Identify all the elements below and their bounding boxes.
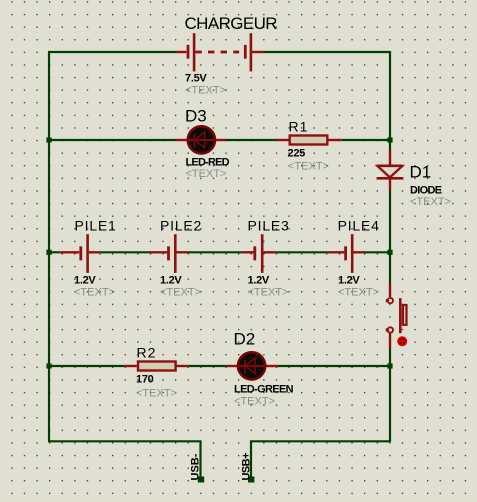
battery PILE1	[60, 234, 101, 273]
long plate	[261, 234, 264, 273]
wire D2 to right rail	[278, 365, 390, 367]
long plate	[351, 234, 354, 273]
battery PILE2	[149, 234, 188, 273]
cell1 long plate	[193, 33, 196, 71]
pin bottom	[389, 178, 391, 190]
wire right rail switch to bottom	[389, 348, 391, 441]
wire pile row junction to PILE1	[49, 251, 60, 253]
resistor R1	[276, 136, 342, 145]
pin left	[176, 139, 188, 141]
svg-text:170: 170	[136, 374, 154, 386]
svg-text:D2: D2	[234, 329, 256, 348]
svg-text:1.2V: 1.2V	[338, 274, 360, 286]
svg-text:<TEXT>: <TEXT>	[186, 168, 227, 180]
pin left	[125, 365, 137, 367]
svg-text:PILE1: PILE1	[75, 217, 117, 233]
short plate	[79, 246, 82, 260]
pin left	[227, 365, 239, 367]
wire bottom left segment	[48, 441, 201, 478]
svg-text:USB-: USB-	[190, 453, 202, 480]
pin top	[389, 283, 391, 297]
pin left	[149, 251, 167, 253]
LED D2	[227, 352, 279, 379]
wire PILE4 to right rail	[365, 251, 390, 253]
svg-text:PILE2: PILE2	[160, 217, 202, 233]
svg-text:1.2V: 1.2V	[160, 274, 182, 286]
LED D3	[176, 126, 227, 153]
svg-text:<TEXT>: <TEXT>	[234, 396, 275, 408]
wire R2 row left	[49, 365, 125, 367]
wire PILE3 to PILE4	[276, 251, 327, 253]
svg-text:PILE3: PILE3	[248, 217, 290, 233]
terminal USB+ square	[248, 477, 254, 483]
svg-text:R2: R2	[137, 344, 157, 360]
pin left	[241, 251, 253, 253]
svg-text:LED-GREEN: LED-GREEN	[234, 384, 294, 396]
wire right rail upper	[389, 51, 391, 151]
junction left-R2 row	[46, 363, 51, 368]
wire between R2 and D2	[189, 365, 227, 367]
svg-text:USB+: USB+	[240, 453, 252, 481]
short plate	[167, 246, 170, 260]
anode triangle	[195, 132, 205, 148]
pin bottom	[389, 334, 391, 349]
svg-text:1.2V: 1.2V	[74, 274, 96, 286]
svg-text:225: 225	[288, 147, 306, 159]
battery CHARGEUR	[176, 33, 265, 71]
short plate	[253, 246, 256, 260]
plunger body	[403, 305, 407, 325]
lever bar	[399, 298, 402, 333]
wire PILE1 to PILE2	[100, 251, 149, 253]
svg-text:<TEXT>: <TEXT>	[136, 388, 177, 400]
svg-text:<TEXT>: <TEXT>	[288, 160, 329, 172]
junction right-pile row	[387, 250, 392, 255]
svg-text:<TEXT>: <TEXT>	[160, 286, 201, 298]
junction right-R2 row	[387, 363, 392, 368]
pin right	[353, 251, 365, 253]
pin right	[252, 51, 264, 53]
body	[138, 362, 176, 371]
long plate	[86, 234, 89, 273]
svg-text:PILE4: PILE4	[338, 217, 380, 233]
diode D1	[377, 150, 404, 190]
body circle	[188, 126, 215, 153]
cell1 short plate	[187, 45, 190, 59]
wire bottom right segment	[251, 441, 391, 478]
battery PILE4	[327, 234, 365, 273]
short plate	[344, 246, 347, 260]
wire row D3 left	[49, 139, 176, 141]
svg-text:<TEXT>: <TEXT>	[338, 286, 379, 298]
svg-text:D3: D3	[185, 107, 207, 126]
cell2 long plate	[250, 33, 253, 71]
resistor R2	[125, 362, 189, 371]
interactive marker	[397, 336, 407, 346]
terminal USB- square	[198, 477, 204, 483]
wire top rail	[48, 51, 176, 53]
cell2 short plate	[244, 45, 247, 59]
dashed link	[195, 51, 239, 54]
pin right	[266, 365, 278, 367]
inner lead	[188, 139, 215, 141]
svg-text:<TEXT>: <TEXT>	[410, 196, 451, 208]
cathode bar	[244, 360, 246, 374]
terminal circle top	[388, 298, 393, 303]
wire PILE2 to PILE3	[188, 251, 241, 253]
svg-text:<TEXT>: <TEXT>	[185, 84, 226, 96]
svg-text:CHARGEUR: CHARGEUR	[185, 14, 278, 33]
switch SW1 push button	[386, 283, 407, 348]
pin right	[176, 365, 189, 367]
svg-text:<TEXT>: <TEXT>	[248, 286, 289, 298]
svg-text:R1: R1	[289, 118, 309, 134]
junction left-D3 row	[46, 137, 51, 142]
wire between D3 and R1	[226, 139, 276, 141]
pin left	[60, 251, 80, 253]
junction left-pile row	[46, 250, 51, 255]
svg-text:LED-RED: LED-RED	[186, 157, 230, 169]
pin right	[329, 139, 342, 141]
anode triangle	[245, 358, 255, 374]
cathode bar	[377, 177, 404, 180]
pin left	[176, 51, 187, 53]
pin right	[89, 251, 101, 253]
svg-text:D1: D1	[410, 162, 432, 181]
battery PILE3	[241, 234, 276, 273]
pin left	[327, 251, 344, 253]
pin right	[263, 251, 276, 253]
long plate	[174, 234, 177, 273]
svg-text:1.2V: 1.2V	[248, 274, 270, 286]
wire R1 to right rail	[342, 139, 390, 141]
pin left	[276, 139, 289, 141]
body	[290, 136, 328, 145]
wire top-left vertical (left rail)	[48, 52, 50, 441]
terminal circle bottom	[388, 327, 393, 332]
body circle	[238, 352, 265, 379]
pin right	[176, 251, 188, 253]
cathode bar	[193, 134, 195, 148]
svg-text:7.5V: 7.5V	[185, 73, 207, 85]
junction right-D3 row	[387, 137, 392, 142]
inner lead	[239, 365, 266, 367]
svg-text:DIODE: DIODE	[410, 184, 442, 196]
wire top rail right of charger	[265, 51, 391, 53]
anode triangle	[377, 164, 403, 167]
wire right rail D1 to pile row	[389, 190, 391, 283]
pin right	[216, 139, 226, 141]
pin top	[389, 150, 391, 165]
svg-text:<TEXT>: <TEXT>	[74, 286, 115, 298]
